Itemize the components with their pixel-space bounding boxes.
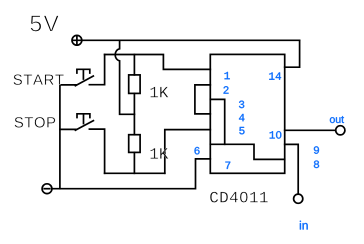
label STOP [15,117,56,128]
wire: START right contact riser [89,55,104,85]
switch S2 STOP: plunger [77,114,90,124]
label 5V supply [30,15,59,31]
resistor R1 top lead [133,55,135,75]
wire: pin 6 to pin 8 link [210,144,284,159]
value 1K for R2 [150,148,168,159]
pin 3 number [239,101,244,108]
resistor R2 1K body [129,135,140,153]
switch S1 START: plunger [77,69,90,79]
wire: START line to pin 1 [105,55,211,70]
out terminal [336,126,345,135]
label START [13,74,63,85]
in terminal [294,194,303,203]
switch S1 START: lever [75,76,93,86]
wire: pin 9 to in terminal [285,144,299,194]
wire: +5V drop to resistor junction with crossover hop [115,40,134,114]
switch S2 STOP: lever [75,121,93,131]
wire: pin 3 feedback [210,99,224,144]
pin 14 number [269,72,281,79]
resistor R2 bottom lead [133,152,135,173]
pin 10 number [270,131,282,138]
wire: STOP line riser to pin 5 [165,130,211,174]
plus terminal [72,35,82,45]
resistor R1 1K body [129,75,140,94]
wire: STOP line bottom [105,172,165,174]
minus terminal [42,184,52,194]
wire: pin 10 to out terminal [285,129,336,131]
pin 6 number [195,147,200,154]
wire: top rail drop to pin 14 [285,40,300,67]
wire: R1 bottom to R2 top lead [133,93,135,134]
switch S1 START: left lead [60,84,76,86]
wire: ground rail to pin 7 [53,159,211,189]
wire: +5V top rail [82,39,300,41]
pin 1 number [225,72,230,79]
pin 7 number [225,162,230,169]
pin 4 number [239,114,244,121]
switch S2 STOP: left lead [60,128,76,130]
wire: STOP right contact drop [89,129,104,173]
pin 8 number [314,161,319,168]
value 1K for R1 [150,87,168,98]
pin 9 number [314,146,319,153]
pin 2 number [224,86,229,93]
node in [300,221,308,230]
node out [330,116,344,123]
pin 5 number [239,127,244,134]
wire: pin 2 to pin 4 loop [195,85,210,114]
IC U1 CD4011 outline [210,54,284,173]
wire: left bus from switches to ground rail [59,85,61,189]
label CD4011 [210,192,268,203]
